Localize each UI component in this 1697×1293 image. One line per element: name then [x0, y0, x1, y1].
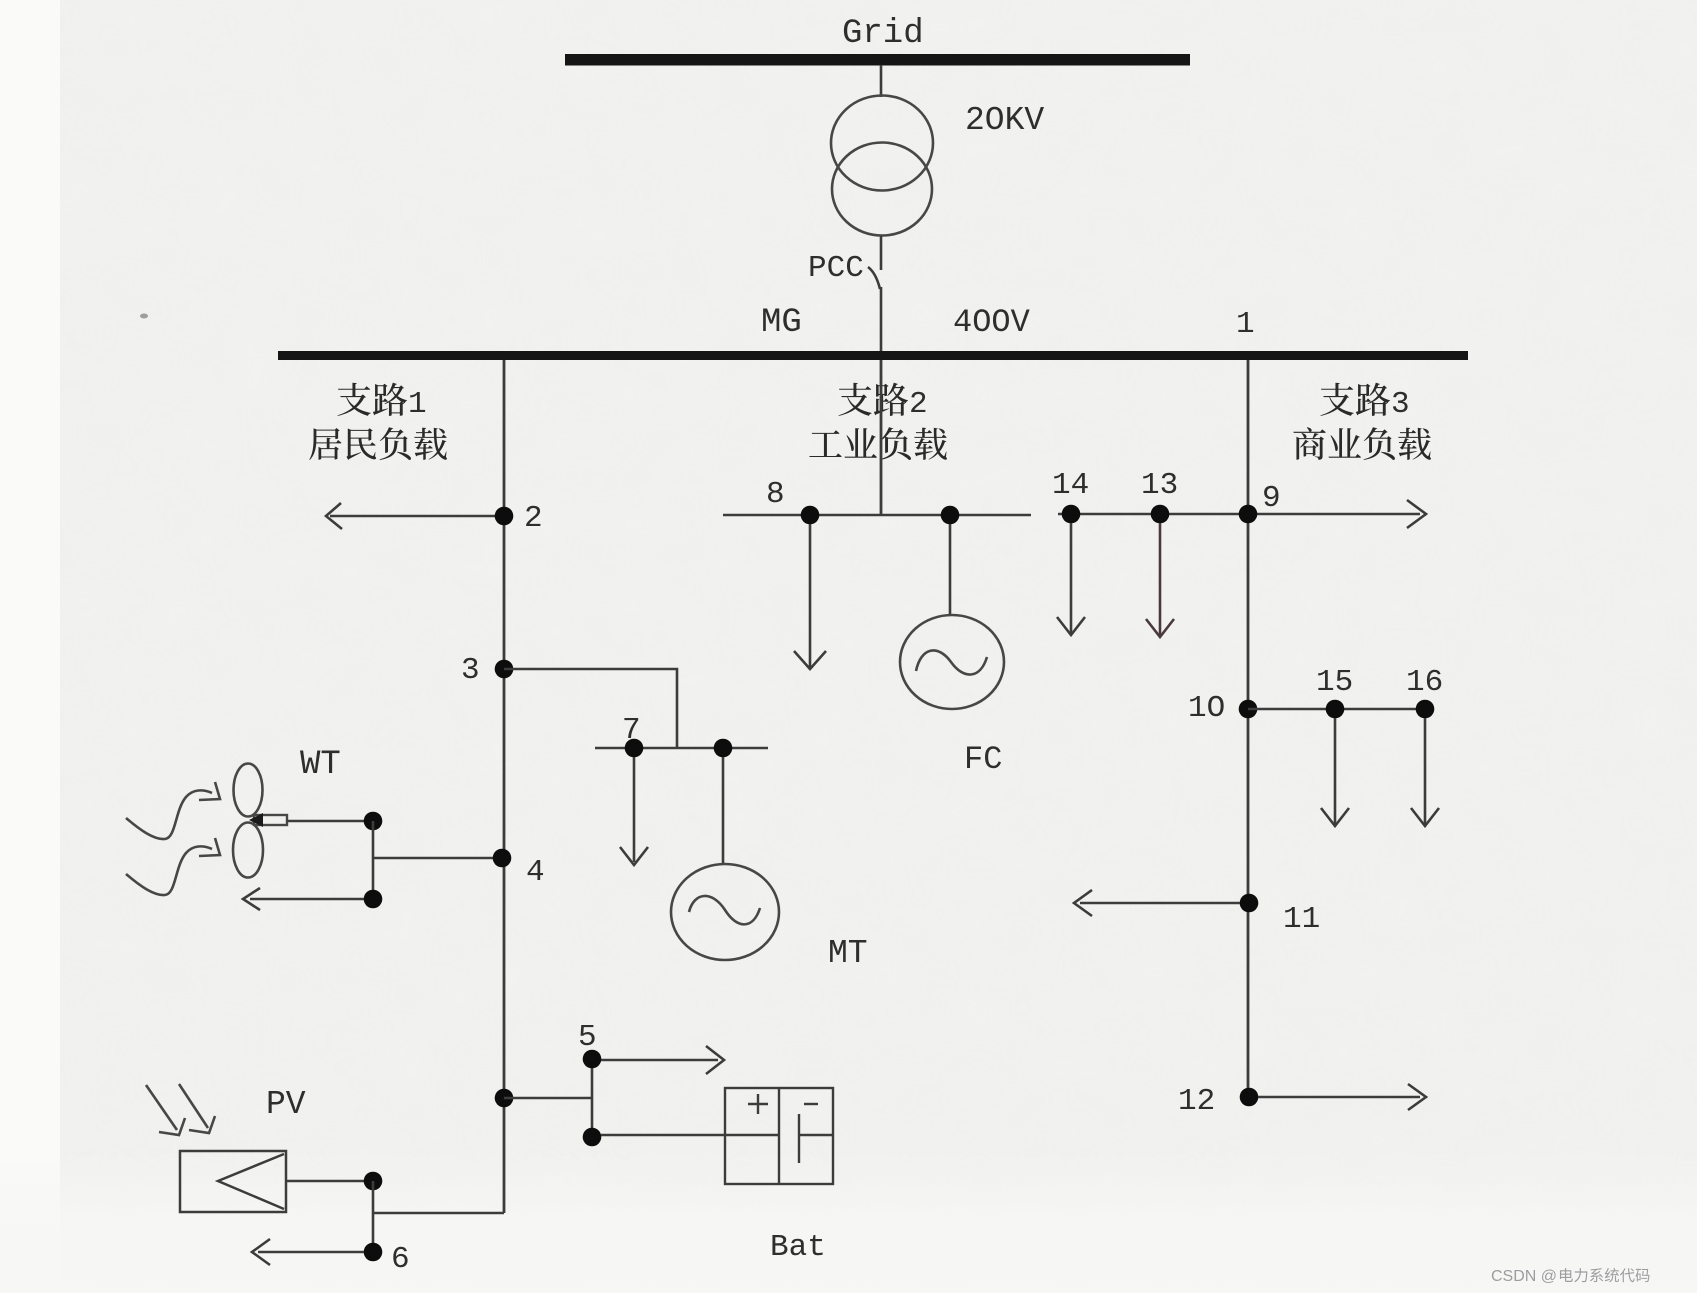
label Bat	[770, 1230, 826, 1265]
label PCC	[808, 251, 864, 286]
wire branch1 feeder vertical	[503, 360, 506, 1213]
switch PCC blade	[868, 267, 880, 289]
svg-text:4OOV: 4OOV	[953, 304, 1031, 341]
arrow from node 6	[252, 1239, 364, 1265]
node WT lower junction	[364, 890, 383, 909]
wire PV junction down to node 6	[372, 1181, 375, 1252]
arrow from lower junction	[243, 888, 364, 910]
wind turbine hub	[249, 813, 287, 827]
wire branch3 sub-bus with arrow	[1058, 500, 1426, 528]
battery Bat box	[725, 1088, 833, 1184]
node 10	[1188, 691, 1257, 726]
svg-text:3: 3	[461, 653, 480, 688]
wire node to FC	[949, 524, 952, 614]
bus Grid (top 20kV bus)	[565, 54, 1190, 66]
wire branch2 sub-bus	[723, 514, 1031, 517]
wind squiggle arrow lower	[126, 838, 220, 895]
svg-text:2: 2	[909, 387, 928, 422]
label FC	[964, 741, 1002, 778]
battery plus sign	[748, 1094, 768, 1114]
svg-text:Bat: Bat	[770, 1230, 826, 1265]
wind turbine WT blades	[233, 764, 263, 878]
node 3	[461, 653, 513, 688]
load arrow at node 7	[620, 757, 648, 865]
generator FC circle with sine	[900, 615, 1004, 709]
wire node7 sub-bus	[595, 747, 768, 750]
svg-text:7: 7	[622, 713, 641, 748]
node PV junction	[364, 1172, 383, 1191]
label branch2 支路2	[838, 383, 927, 422]
label PV	[266, 1086, 306, 1123]
bus MG 400V	[278, 351, 1468, 360]
label MT	[828, 935, 868, 972]
wire transformer to PCC switch	[880, 236, 883, 270]
node 1 label	[1236, 307, 1255, 342]
label branch1 居民负载	[309, 427, 447, 460]
stray ink speck	[140, 314, 148, 319]
node 13	[1141, 468, 1178, 523]
wire node3 to node7 sub-bus (L shape)	[504, 669, 677, 748]
label branch2 工业负载	[809, 427, 947, 460]
label 400V	[953, 304, 1031, 341]
node 7	[622, 713, 643, 757]
watermark CSDN	[1491, 1268, 1649, 1285]
load arrow at node 15	[1321, 718, 1349, 826]
svg-text:PV: PV	[266, 1086, 306, 1123]
svg-text:1O: 1O	[1188, 691, 1225, 726]
node battery junction	[583, 1128, 602, 1147]
svg-text:2: 2	[524, 501, 543, 536]
svg-text:12: 12	[1178, 1084, 1215, 1119]
sun ray arrow 1	[146, 1085, 185, 1135]
svg-text:15: 15	[1316, 665, 1353, 700]
load arrow at node 8	[794, 524, 826, 669]
wire PV to junction	[286, 1180, 373, 1183]
wire branch3 feeder vertical	[1247, 360, 1250, 1097]
label WT	[300, 746, 341, 784]
node 14	[1052, 468, 1089, 523]
battery minus sign	[804, 1103, 818, 1105]
arrow from node 11	[1074, 890, 1240, 916]
arrow from node 5	[601, 1046, 724, 1074]
generator MT circle with sine	[671, 864, 779, 960]
node branch1 lower junction	[495, 1089, 514, 1108]
svg-text:13: 13	[1141, 468, 1178, 503]
svg-text:Grid: Grid	[842, 15, 924, 53]
svg-text:WT: WT	[300, 746, 341, 784]
wire junction vertical	[372, 821, 375, 899]
svg-text:MG: MG	[761, 304, 802, 342]
PV panel box with triangle	[180, 1151, 286, 1212]
wire grid bus to transformer	[880, 65, 883, 97]
svg-text:1: 1	[408, 387, 427, 422]
battery plate symbol	[799, 1114, 833, 1163]
node 6	[364, 1242, 410, 1277]
wire branch2 feeder vertical	[880, 360, 883, 515]
svg-text:16: 16	[1406, 665, 1443, 700]
svg-text:FC: FC	[964, 741, 1002, 778]
sun ray arrow 2	[179, 1084, 215, 1133]
svg-text:MT: MT	[828, 935, 868, 972]
node 15	[1316, 665, 1353, 718]
svg-text:14: 14	[1052, 468, 1089, 503]
node 16	[1406, 665, 1443, 718]
wire junction to battery	[601, 1134, 779, 1137]
node WT upper junction	[364, 812, 383, 831]
svg-text:11: 11	[1283, 902, 1320, 937]
wire branch1 load lateral with arrow	[326, 503, 504, 529]
svg-text:PCC: PCC	[808, 251, 864, 286]
node FC connection	[941, 506, 960, 525]
wire PCC switch to MG bus	[880, 287, 883, 352]
wire node10 sub-bus	[1248, 708, 1425, 711]
value label 20KV	[965, 102, 1044, 139]
node 11	[1240, 894, 1321, 937]
node 2	[495, 501, 543, 536]
wire node5 riser vertical	[591, 1059, 594, 1137]
wire node to MT	[722, 757, 725, 863]
node 5	[578, 1020, 601, 1068]
svg-text:1: 1	[1236, 307, 1255, 342]
load arrow at node 14	[1057, 523, 1085, 635]
wind squiggle arrow upper	[126, 782, 220, 839]
node 8	[766, 477, 819, 524]
svg-text:6: 6	[391, 1242, 410, 1277]
svg-text:4: 4	[526, 855, 545, 890]
load arrow at node 13	[1146, 523, 1174, 637]
node 4	[493, 849, 545, 890]
label branch3 支路3	[1320, 383, 1409, 422]
wire junction to node 4	[373, 857, 502, 860]
svg-text:9: 9	[1262, 481, 1281, 516]
node 12	[1178, 1084, 1258, 1119]
label branch3 商业负载	[1293, 427, 1431, 460]
node 9	[1239, 481, 1281, 523]
svg-text:3: 3	[1391, 387, 1410, 422]
transformer T1 (two overlapping circles)	[831, 96, 933, 236]
arrow from node 12	[1258, 1084, 1426, 1110]
svg-text:8: 8	[766, 477, 785, 512]
node MT connection	[714, 739, 733, 758]
svg-text:5: 5	[578, 1020, 597, 1055]
svg-text:2OKV: 2OKV	[965, 102, 1044, 139]
wire WT to junction	[287, 820, 373, 823]
label branch1 支路1	[337, 383, 426, 422]
wire PV riser to branch1	[373, 1212, 504, 1215]
wire junction to node5 riser	[504, 1097, 592, 1100]
label MG	[761, 304, 802, 342]
svg-text:CSDN @: CSDN @	[1491, 1268, 1557, 1285]
load arrow at node 16	[1411, 718, 1439, 826]
label Grid	[842, 15, 924, 53]
